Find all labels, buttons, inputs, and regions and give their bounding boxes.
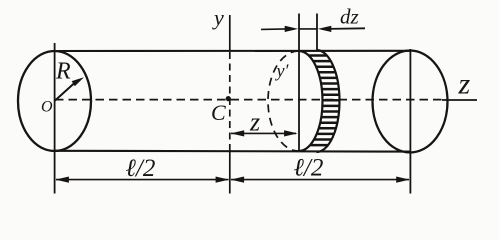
svg-text:O: O bbox=[41, 99, 53, 116]
svg-text:y′: y′ bbox=[275, 61, 290, 81]
svg-text:ℓ/2: ℓ/2 bbox=[294, 154, 324, 181]
svg-text:dz: dz bbox=[340, 5, 359, 29]
svg-text:y: y bbox=[212, 5, 224, 30]
svg-text:R: R bbox=[55, 58, 71, 84]
svg-text:ℓ/2: ℓ/2 bbox=[126, 155, 156, 182]
svg-text:C: C bbox=[211, 100, 226, 125]
svg-text:z: z bbox=[249, 108, 260, 137]
svg-text:z: z bbox=[458, 68, 471, 101]
